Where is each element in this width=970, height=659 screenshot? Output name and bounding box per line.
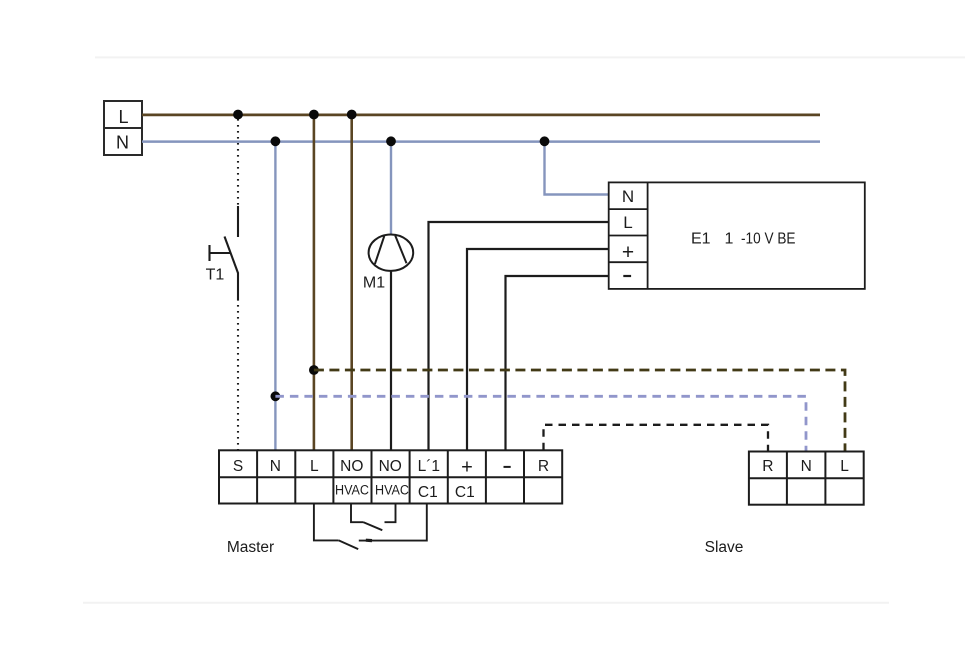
pin -	[504, 466, 511, 468]
wire M1 to NO2 (black)	[390, 271, 392, 450]
svg-text:NO: NO	[379, 458, 402, 475]
svg-text:S: S	[233, 458, 243, 475]
wire E1 - to terminal - (black)	[506, 276, 609, 450]
svg-text:N: N	[270, 458, 281, 475]
svg-text:Slave: Slave	[705, 539, 744, 556]
value label E1 1 -10 V BE	[691, 230, 796, 247]
terminal strip Slave	[749, 452, 864, 505]
pin - of E1	[623, 275, 631, 277]
svg-text:C1: C1	[455, 484, 475, 501]
junction L/NO1	[347, 110, 357, 120]
ballast E1	[609, 182, 865, 289]
junction N/E1	[540, 136, 550, 146]
junction L dashed tap	[309, 365, 319, 375]
wire NO1 vertical (brown, to terminal NO)	[350, 115, 353, 451]
jumper switch L-C1	[314, 504, 427, 550]
wire dashed N master to slave (light blue)	[275, 396, 806, 451]
motor M1 (fan)	[369, 235, 414, 271]
svg-text:L: L	[310, 458, 319, 475]
svg-text:N: N	[801, 458, 812, 475]
svg-text:L´1: L´1	[418, 458, 440, 475]
junction L/S	[233, 110, 243, 120]
junction N dashed tap	[271, 391, 281, 401]
svg-text:-10 V BE: -10 V BE	[741, 230, 796, 247]
jumper switch HVAC-HVAC	[351, 504, 396, 531]
svg-text:HVAC: HVAC	[375, 483, 409, 498]
svg-text:E1: E1	[691, 230, 711, 247]
svg-text:R: R	[762, 458, 773, 475]
wire M1 feed (blue)	[390, 141, 392, 234]
wire dashed L master to slave (dark olive)	[314, 370, 845, 452]
svg-text:R: R	[538, 458, 549, 475]
svg-text:Master: Master	[227, 539, 274, 556]
switch T1	[210, 237, 239, 274]
wire S dotted (to switch T1)	[237, 119, 239, 450]
junction N/N	[271, 136, 281, 146]
svg-text:N: N	[622, 187, 634, 206]
svg-text:L: L	[118, 107, 128, 127]
junction L/L	[309, 110, 319, 120]
wire E1 L to terminal L'1 (black)	[429, 222, 609, 450]
svg-text:NO: NO	[340, 458, 363, 475]
svg-text:L: L	[840, 458, 849, 475]
wire N bus to E1 N (blue)	[545, 141, 609, 194]
svg-text:C1: C1	[418, 484, 438, 501]
terminal strip Master	[219, 450, 562, 503]
svg-text:T1: T1	[206, 267, 225, 284]
wire L vertical (brown, to terminal L)	[313, 115, 316, 451]
svg-text:M1: M1	[363, 275, 385, 292]
wire L bus (brown)	[142, 114, 820, 117]
wire dashed R master to slave (black)	[544, 425, 769, 452]
svg-text:N: N	[116, 132, 129, 152]
wire N bus (blue)	[142, 140, 820, 143]
junction N/M1	[386, 136, 396, 146]
svg-text:L: L	[623, 213, 632, 232]
svg-text:+: +	[461, 456, 473, 478]
svg-text:1: 1	[725, 230, 734, 247]
svg-text:+: +	[622, 241, 634, 264]
svg-text:HVAC: HVAC	[335, 483, 369, 498]
wire N vertical (blue, to terminal N)	[274, 141, 276, 450]
wire E1 + to terminal + (black)	[467, 249, 609, 450]
terminal box L/N (mains input)	[104, 101, 142, 155]
